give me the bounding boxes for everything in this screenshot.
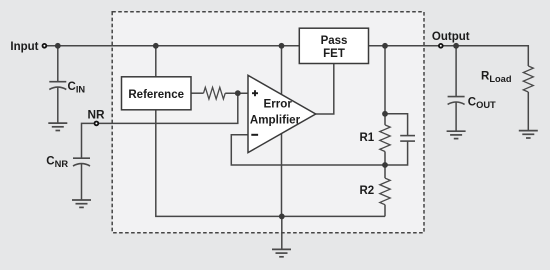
node: junction dot amp supply tap <box>279 43 285 49</box>
wire: R1 drop from output rail <box>384 46 386 114</box>
svg-text:Reference: Reference <box>128 89 184 101</box>
wire: bypass capacitor branch (bottom) <box>385 141 408 165</box>
svg-text:FET: FET <box>323 48 345 60</box>
wire: reference supply stub <box>155 46 157 77</box>
svg-text:Error: Error <box>264 97 293 110</box>
ground (C_IN) <box>48 123 67 130</box>
svg-text:Input: Input <box>10 41 38 53</box>
wire: resistor to amp + input <box>225 92 249 94</box>
node: junction dot C_IN tap <box>55 43 61 49</box>
resistor R2 <box>380 178 390 205</box>
wire: reference output to resistor <box>191 92 204 94</box>
ground (IC) <box>272 249 291 256</box>
wire: amp ground drop <box>281 130 283 217</box>
wire: error amp supply drop <box>281 46 283 95</box>
resistor (series, reference to + input) <box>204 87 226 99</box>
node: junction dot R1 top <box>382 111 388 117</box>
wire: feedback node to amp - input <box>231 135 385 165</box>
node: junction dot R1 tap <box>382 43 388 49</box>
wire: C_IN drop <box>57 46 59 82</box>
wire: NR node to + input node <box>99 93 238 123</box>
wire: R2 top stub <box>384 165 386 178</box>
wire: amp output to pass FET gate <box>314 64 334 115</box>
wire: NR node left to C_NR <box>82 123 94 158</box>
wire: internal ground bus <box>156 110 385 217</box>
resistor R1 <box>380 125 390 152</box>
ground (C_NR) <box>72 200 91 207</box>
capacitor C_OUT <box>448 97 465 105</box>
wire: R_Load to ground <box>527 92 529 131</box>
svg-text:CIN: CIN <box>68 81 86 95</box>
node: junction dot ground bus <box>279 214 285 220</box>
svg-text:NR: NR <box>87 108 105 122</box>
wire: IC ground drop <box>281 216 283 249</box>
input terminal <box>43 44 47 48</box>
svg-text:Amplifier: Amplifier <box>250 114 301 127</box>
capacitor C_IN <box>49 82 66 90</box>
wire: bypass capacitor branch (top) <box>385 114 408 136</box>
output terminal <box>439 44 443 48</box>
NR terminal <box>95 122 99 126</box>
wire: C_NR to ground <box>81 164 83 201</box>
LDO IC boundary (dashed) <box>112 12 424 233</box>
node: junction dot + input <box>235 90 241 96</box>
Reference block <box>122 77 192 110</box>
wire: R1 bottom stub <box>384 152 386 166</box>
svg-text:RLoad: RLoad <box>481 71 512 85</box>
wire: C_IN to ground <box>57 87 59 123</box>
node: junction dot reference tap <box>153 43 159 49</box>
node: junction dot feedback <box>382 162 388 168</box>
wire: output rail (right) <box>368 46 528 66</box>
wire: C_OUT to ground <box>455 102 457 131</box>
capacitor (bypass across R1) <box>400 136 415 142</box>
svg-text:Output: Output <box>432 31 470 43</box>
ground (C_OUT) <box>447 131 466 138</box>
ground (R_Load) <box>519 131 538 138</box>
resistor R_Load <box>523 66 533 92</box>
svg-text:COUT: COUT <box>468 97 496 111</box>
svg-text:R1: R1 <box>360 132 375 144</box>
Pass FET block <box>299 28 368 63</box>
wire: R2 bottom stub <box>384 205 386 217</box>
node: junction dot C_OUT tap <box>453 43 459 49</box>
wire: input rail (left) <box>47 45 299 47</box>
wire: C_OUT drop <box>455 46 457 97</box>
wire: R1 top stub <box>384 114 386 125</box>
svg-text:CNR: CNR <box>46 155 68 169</box>
svg-text:Pass: Pass <box>321 35 348 47</box>
capacitor C_NR <box>73 158 90 166</box>
op-amp U1 (error amplifier) <box>248 75 316 152</box>
svg-text:R2: R2 <box>360 185 375 197</box>
